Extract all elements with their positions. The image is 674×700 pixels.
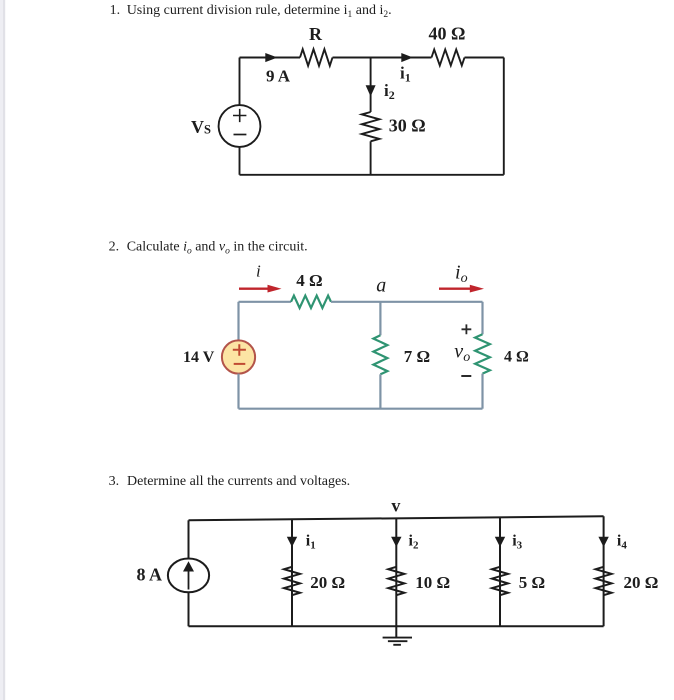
svg-text:8 A: 8 A [137, 565, 163, 585]
svg-text:i1: i1 [400, 63, 411, 84]
svg-text:1.Using current division rule,: 1.Using current division rule, determine… [110, 3, 392, 20]
current arrow i [239, 285, 282, 293]
current arrow 9A [265, 53, 277, 62]
wire: c1 bottom [240, 174, 504, 176]
wire: c1 middle vertical upper [370, 58, 372, 113]
wire: c2 middle vertical lower [379, 374, 381, 408]
svg-text:2.Calculate io and vo in the c: 2.Calculate io and vo in the circuit. [109, 240, 308, 257]
resistor 20 Ω [284, 567, 300, 595]
resistor 4 ohm (right) [475, 334, 490, 373]
svg-text:i: i [256, 261, 261, 280]
source Vs [219, 105, 261, 147]
svg-text:io: io [455, 262, 468, 286]
wire: c2 right vertical lower [481, 374, 483, 409]
current arrow i1 [401, 53, 413, 62]
svg-text:VS: VS [191, 117, 211, 137]
current arrow i2 [391, 537, 401, 547]
current arrow i2 [366, 85, 376, 96]
wire: c1 left vertical upper [239, 58, 241, 106]
svg-text:40 Ω: 40 Ω [429, 24, 466, 44]
current arrow i3 [495, 537, 505, 547]
current arrow i1 [287, 537, 297, 547]
svg-text:a: a [376, 275, 386, 297]
wire: c2 top left segment [239, 301, 292, 303]
svg-text:14 V: 14 V [183, 349, 215, 366]
current arrow io [439, 285, 484, 293]
wire: c2 bottom [239, 408, 483, 410]
ground [383, 626, 412, 645]
wire: c3 branch i2 vertical [395, 518, 397, 626]
resistor 5 Ω [492, 567, 508, 595]
resistor 30 ohm [362, 112, 380, 141]
wire: c1 middle vertical lower [370, 141, 372, 175]
resistor 4 ohm (top) [291, 296, 331, 308]
resistor 20 Ω [596, 567, 612, 595]
polarity plus (vo) [462, 324, 472, 334]
wire: c2 left vertical upper [237, 302, 239, 341]
wire: c1 left vertical lower [239, 147, 241, 175]
svg-text:v: v [391, 496, 400, 516]
wire: c2 right vertical upper [481, 302, 483, 335]
wire: c2 middle vertical upper [379, 302, 381, 336]
svg-text:i2: i2 [384, 81, 395, 102]
svg-text:vo: vo [454, 341, 470, 365]
svg-text:9 A: 9 A [266, 67, 291, 86]
source 14V [222, 340, 255, 373]
svg-text:10 Ω: 10 Ω [415, 573, 450, 592]
wire: c3 branch i4 vertical [603, 516, 605, 626]
current arrow i4 [598, 537, 608, 547]
svg-text:3.Determine all the currents a: 3.Determine all the currents and voltage… [109, 474, 351, 489]
svg-text:4 Ω: 4 Ω [296, 271, 322, 290]
svg-text:i4: i4 [617, 532, 627, 551]
wire: c3 top [189, 516, 604, 520]
resistor R [300, 49, 333, 66]
svg-text:20 Ω: 20 Ω [310, 573, 345, 592]
resistor 10 Ω [388, 567, 404, 595]
svg-text:i3: i3 [512, 532, 522, 551]
svg-text:R: R [309, 24, 323, 44]
svg-text:i2: i2 [409, 532, 419, 551]
resistor 40 ohm [432, 50, 465, 66]
wire: c3 left vertical lower [188, 592, 190, 626]
svg-text:20 Ω: 20 Ω [624, 573, 659, 592]
wire: c1 right vertical [503, 58, 505, 175]
wire: c3 branch i1 vertical [291, 519, 293, 626]
polarity minus (vo) [461, 375, 471, 377]
svg-text:i1: i1 [306, 532, 316, 551]
page left edge strip [0, 0, 5, 700]
svg-text:30 Ω: 30 Ω [389, 115, 426, 135]
svg-text:5 Ω: 5 Ω [519, 573, 545, 592]
wire: c1 top right segment [465, 57, 504, 59]
wire: c2 left vertical lower [237, 374, 239, 409]
wire: c3 bottom [189, 625, 604, 627]
wire: c3 left vertical upper [188, 520, 190, 558]
wire: c3 branch i3 vertical [499, 517, 501, 626]
svg-text:7 Ω: 7 Ω [404, 347, 430, 366]
wire: c1 top middle segment [333, 57, 432, 59]
wire: c1 top-left segment [240, 57, 301, 59]
resistor 7 ohm [373, 335, 387, 374]
source 8A [168, 559, 209, 593]
svg-text:4 Ω: 4 Ω [504, 349, 529, 366]
wire: c2 top right segment [331, 301, 483, 303]
